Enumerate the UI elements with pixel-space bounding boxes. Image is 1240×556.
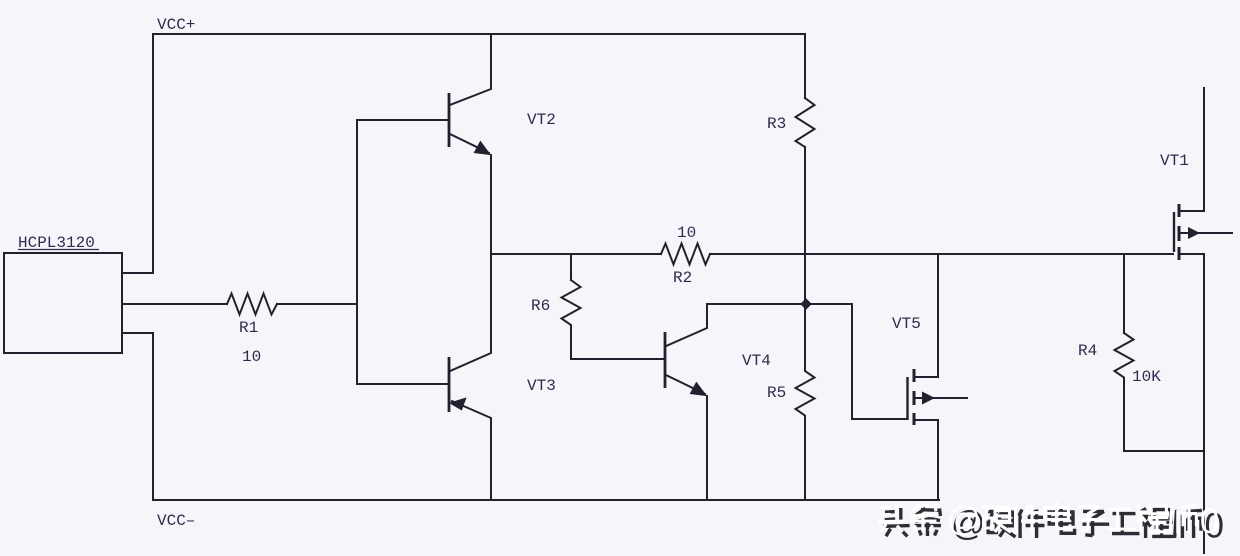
transistor Q VT2 collector bbox=[450, 34, 491, 105]
resistor R3 bbox=[796, 98, 815, 147]
wire R4 top tap bbox=[1123, 254, 1125, 333]
svg-text:10: 10 bbox=[242, 348, 261, 366]
resistor R4 bbox=[1115, 333, 1134, 378]
wire left vertical lower (pin3 to VCC- rail) bbox=[152, 333, 154, 500]
watermark 头条@硬件电子工程师0 (embossed) bbox=[878, 500, 1224, 545]
transistor Q VT2 emitter bbox=[450, 134, 489, 153]
part label underline bbox=[18, 249, 99, 251]
wire R3 top (rail to zigzag) bbox=[804, 34, 806, 98]
resistor R6 bbox=[562, 280, 581, 328]
MOSFET VT5 channel segments bbox=[913, 369, 916, 425]
transistor Q VT3 bottom lead bbox=[452, 401, 491, 500]
transistor VT4 base bar bbox=[664, 332, 667, 388]
wire main node horizontal left of R2 bbox=[491, 253, 661, 255]
wire left vertical upper (VCC+ to pin1) bbox=[152, 34, 154, 273]
wire base node vertical bbox=[356, 120, 358, 384]
svg-text:R6: R6 bbox=[531, 297, 550, 315]
wire VT4 emitter vertical bbox=[706, 396, 708, 500]
transistor VT3 emitter arrowhead (points into bar) bbox=[450, 398, 466, 410]
resistor R5 bbox=[796, 304, 815, 418]
watermark white highlight layer bbox=[878, 500, 1219, 541]
wire VT3 base bbox=[357, 383, 448, 385]
wire R6 top tap bbox=[570, 254, 572, 280]
wire R6 bottom to VT4 base bbox=[571, 328, 664, 359]
svg-text:R4: R4 bbox=[1078, 342, 1097, 360]
watermark dark layer bbox=[883, 505, 1224, 546]
MOSFET VT1 gate bar bbox=[1173, 212, 1175, 252]
svg-text:R1: R1 bbox=[239, 319, 258, 337]
wire pin 1 (box to left vertical) bbox=[122, 272, 153, 274]
svg-text:10K: 10K bbox=[1132, 368, 1161, 386]
svg-text:VT5: VT5 bbox=[892, 315, 921, 333]
resistor R2 bbox=[661, 244, 710, 265]
transistor VT3 base bar bbox=[448, 357, 451, 412]
wire VCC+ top rail bbox=[153, 33, 805, 35]
wire VT5 gate from junction bbox=[852, 304, 906, 419]
wire VT1 drain vertical bbox=[1181, 88, 1204, 211]
MOSFET VT1 body arrow bbox=[1188, 227, 1200, 239]
wire VT2 base bbox=[357, 119, 448, 121]
svg-text:10: 10 bbox=[677, 224, 696, 242]
wire VT1 body lead bbox=[1181, 232, 1232, 234]
transistor Q VT4 emitter bbox=[666, 375, 705, 394]
wire main node horizontal right of R2 bbox=[710, 253, 1173, 255]
wire R3 bottom to junction bbox=[804, 147, 806, 304]
svg-text:VT2: VT2 bbox=[527, 111, 556, 129]
transistor VT4 emitter arrowhead bbox=[690, 383, 706, 396]
resistor R1 bbox=[227, 294, 277, 315]
MOSFET VT1 channel segments bbox=[1178, 204, 1181, 260]
wire R1 to base node bbox=[277, 303, 357, 305]
wire R4 bottom to VT1 source line bbox=[1124, 378, 1204, 451]
wire VCC- bottom rail bbox=[153, 499, 939, 501]
node junction dot bbox=[800, 298, 812, 310]
wire VT2 emitter vertical bbox=[490, 155, 492, 254]
wire VT5 source bbox=[916, 420, 938, 500]
transistor Q VT4 collector bbox=[666, 304, 852, 346]
svg-text:VT1: VT1 bbox=[1160, 152, 1189, 170]
svg-text:VT3: VT3 bbox=[527, 377, 556, 395]
wire R5 bottom bbox=[804, 418, 806, 500]
transistor VT2 emitter arrowhead bbox=[474, 142, 490, 155]
svg-text:VCC+: VCC+ bbox=[157, 16, 195, 34]
op-amp U1 HCPL3120 box bbox=[4, 253, 122, 353]
wire VT5 drain vertical bbox=[916, 254, 938, 377]
transistor VT2 base bar bbox=[448, 93, 451, 147]
svg-text:VT4: VT4 bbox=[742, 352, 771, 370]
svg-text:VCC–: VCC– bbox=[157, 512, 195, 530]
wire VT1 source bbox=[1181, 254, 1204, 553]
wire pin 2 output (box to R1) bbox=[122, 303, 227, 305]
svg-text:R2: R2 bbox=[673, 269, 692, 287]
transistor Q VT3 top lead bbox=[450, 254, 491, 371]
wire VT5 body lead bbox=[916, 397, 967, 399]
MOSFET VT5 gate bar bbox=[906, 377, 908, 420]
svg-text:R3: R3 bbox=[767, 115, 786, 133]
svg-text:R5: R5 bbox=[767, 384, 786, 402]
MOSFET VT5 body arrow bbox=[922, 392, 935, 405]
wire pin 3 (box to left vertical) bbox=[122, 332, 153, 334]
